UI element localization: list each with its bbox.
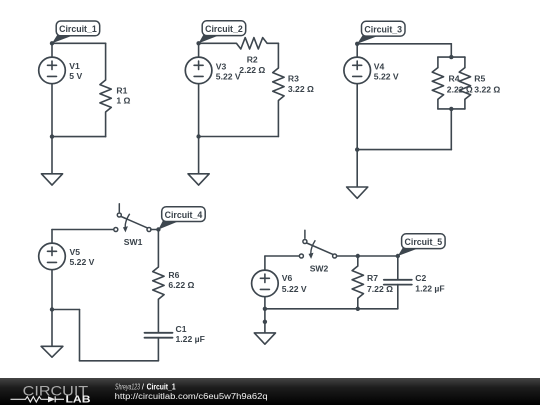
- wire ground stem C4: [51, 310, 53, 349]
- switch SW2 output terminal: [333, 254, 337, 258]
- svg-text:V1: V1: [69, 61, 80, 71]
- switch SW1 lever: [121, 217, 147, 228]
- CircuitLab logo diode mark: [48, 396, 55, 402]
- switch SW2 actuation arrow: [311, 240, 315, 255]
- node bottom C1: [50, 134, 54, 138]
- voltage source V4: [344, 57, 371, 84]
- switch SW1 throw terminal: [117, 213, 121, 217]
- svg-text:1 Ω: 1 Ω: [116, 96, 130, 106]
- switch SW2 pole terminal: [299, 254, 303, 258]
- switch SW2 lever: [307, 243, 333, 254]
- node R7 top C5: [356, 254, 360, 258]
- label Circuit_1: [52, 34, 76, 43]
- wire bottom C5: [265, 308, 398, 310]
- svg-text:Circuit_4: Circuit_4: [165, 210, 203, 220]
- wire switch to node C4: [151, 229, 159, 231]
- svg-text:V6: V6: [282, 273, 293, 283]
- svg-text:5.22 V: 5.22 V: [216, 72, 241, 82]
- ground C4: [41, 346, 63, 357]
- wire right upper C2: [277, 43, 279, 68]
- svg-text:R4: R4: [449, 73, 460, 83]
- wire R4 top stem: [437, 57, 439, 68]
- svg-text:C2: C2: [415, 273, 426, 283]
- node ground net C5: [263, 320, 267, 324]
- wire parallel bottom bar C3: [438, 108, 465, 110]
- svg-text:Circuit_1: Circuit_1: [147, 382, 176, 391]
- resistor R7: [352, 266, 363, 298]
- ground C2: [188, 174, 209, 185]
- svg-text:V3: V3: [216, 61, 227, 71]
- ground C3: [347, 187, 368, 198]
- svg-text:V4: V4: [374, 61, 385, 71]
- wire top C4: [52, 229, 114, 231]
- node R7 bottom C5: [356, 307, 360, 311]
- svg-text:Circuit_1: Circuit_1: [59, 24, 97, 34]
- label Circuit_2: [199, 34, 223, 43]
- footer bar: [0, 378, 540, 405]
- capacitor C2: [384, 279, 412, 281]
- wire left upper C3: [356, 44, 358, 57]
- wire switch to R7 node C5: [337, 255, 358, 257]
- wire R7 node to C2 node C5: [358, 255, 398, 257]
- capacitor C1: [145, 332, 173, 334]
- svg-text:C1: C1: [176, 324, 187, 334]
- ground C1: [41, 174, 62, 185]
- wire R7 bottom C5: [357, 298, 359, 309]
- svg-text:1.22 µF: 1.22 µF: [176, 334, 205, 344]
- svg-text:5.22 V: 5.22 V: [70, 257, 95, 267]
- switch SW1 output terminal: [147, 228, 151, 232]
- wire left upper C2: [198, 43, 200, 57]
- node bottom C4: [50, 307, 54, 311]
- svg-text:V5: V5: [70, 247, 81, 257]
- wire bottom riser C4: [79, 310, 81, 361]
- svg-text:http://circuitlab.com/c6eu5w7h: http://circuitlab.com/c6eu5w7h9a62q: [115, 392, 268, 401]
- wire ground stem C5: [264, 309, 266, 337]
- wire right rail upper C4: [157, 230, 159, 268]
- wire C2 to bottom C5: [397, 285, 399, 309]
- svg-text:3.22 Ω: 3.22 Ω: [288, 84, 314, 94]
- svg-text:R6: R6: [168, 270, 179, 280]
- node bottom C5: [263, 307, 267, 311]
- resistor R3: [273, 68, 284, 101]
- voltage source V3: [185, 57, 212, 84]
- switch SW1 pole terminal: [114, 228, 118, 232]
- label Circuit_5: [398, 247, 422, 256]
- wire right upper C1: [105, 43, 107, 80]
- svg-text:Circuit_3: Circuit_3: [364, 25, 402, 35]
- svg-text:Circuit_5: Circuit_5: [405, 237, 443, 247]
- wire ground stem C2: [198, 137, 200, 176]
- svg-text:3.22 Ω: 3.22 Ω: [474, 84, 500, 94]
- svg-text:1.22 µF: 1.22 µF: [415, 283, 444, 293]
- wire V6 to top C5: [264, 256, 266, 270]
- resistor R5: [459, 68, 470, 100]
- resistor R6: [153, 267, 164, 299]
- wire right rail mid C4: [157, 299, 159, 332]
- voltage source V5: [39, 243, 66, 270]
- wire right lower C1: [105, 112, 107, 137]
- label Circuit_3: [357, 35, 381, 44]
- ground C5: [254, 333, 275, 344]
- svg-text:SW1: SW1: [124, 237, 143, 247]
- wire R7 stem C5: [357, 256, 359, 266]
- wire left lower C3: [356, 84, 358, 150]
- wire ground stem C3: [356, 150, 358, 188]
- resistor R4: [432, 68, 443, 100]
- svg-text:LAB: LAB: [66, 394, 91, 405]
- wire V6 bottom C5: [264, 297, 266, 309]
- voltage source V1: [39, 57, 66, 84]
- wire top C5: [265, 255, 300, 257]
- switch SW2 actuator line: [304, 230, 306, 238]
- wire R5 bottom stem: [464, 99, 466, 109]
- switch SW1 actuator line: [118, 204, 120, 212]
- wire ground stem C1: [51, 137, 53, 175]
- wire top-left C2: [199, 42, 237, 44]
- svg-text:5.22 V: 5.22 V: [282, 284, 307, 294]
- wire left lower C2: [198, 84, 200, 137]
- svg-text:SW2: SW2: [310, 264, 329, 274]
- CircuitLab logo resistor zigzag mark: [11, 396, 65, 402]
- svg-text:R3: R3: [288, 74, 299, 84]
- svg-text:R2: R2: [247, 55, 258, 65]
- wire bottom C1: [52, 136, 106, 138]
- wire top C3: [357, 43, 451, 45]
- wire parallel top bar C3: [438, 56, 465, 58]
- wire bottom C4: [80, 360, 159, 362]
- wire cap to bottom C4: [157, 338, 159, 361]
- wire R5 top stem: [464, 57, 466, 68]
- voltage source V6: [252, 270, 279, 297]
- wire bottom C3: [357, 149, 451, 151]
- svg-text:R7: R7: [367, 273, 378, 283]
- svg-text:2.22 Ω: 2.22 Ω: [447, 84, 473, 94]
- wire right lower C2: [277, 101, 279, 137]
- svg-text:5.22 V: 5.22 V: [374, 72, 399, 82]
- wire bottom C2: [199, 136, 279, 138]
- wire left lower C1: [51, 84, 53, 137]
- svg-text:R1: R1: [116, 85, 127, 95]
- wire drop to parallel pair C3: [450, 44, 452, 57]
- svg-text:2.22 Ω: 2.22 Ω: [239, 65, 265, 75]
- wire right lower C3: [450, 109, 452, 150]
- svg-text:6.22 Ω: 6.22 Ω: [168, 280, 194, 290]
- svg-text:5 V: 5 V: [69, 71, 82, 81]
- wire R4 bottom stem: [437, 99, 439, 109]
- switch SW2 throw terminal: [303, 240, 307, 244]
- wire V5 to top C4: [51, 230, 53, 244]
- node bottom C3: [355, 147, 359, 151]
- wire left upper C1: [51, 43, 53, 57]
- label Circuit_4: [158, 220, 181, 230]
- resistor R1: [100, 80, 111, 112]
- node parallel top C3: [449, 55, 453, 59]
- resistor R2: [236, 38, 267, 49]
- node bottom C2: [196, 134, 200, 138]
- wire V5 bottom C4: [51, 270, 53, 310]
- switch SW1 actuation arrow: [125, 214, 129, 229]
- svg-text:R5: R5: [474, 73, 485, 83]
- svg-text:Circuit_2: Circuit_2: [205, 24, 243, 34]
- wire C2 drop C5: [397, 256, 399, 280]
- wire top-right C2: [267, 42, 278, 44]
- wire top C1: [52, 42, 106, 44]
- node parallel bottom C3: [449, 107, 453, 111]
- svg-text:Shreya123: Shreya123: [115, 382, 140, 391]
- wire node link C4: [52, 309, 80, 311]
